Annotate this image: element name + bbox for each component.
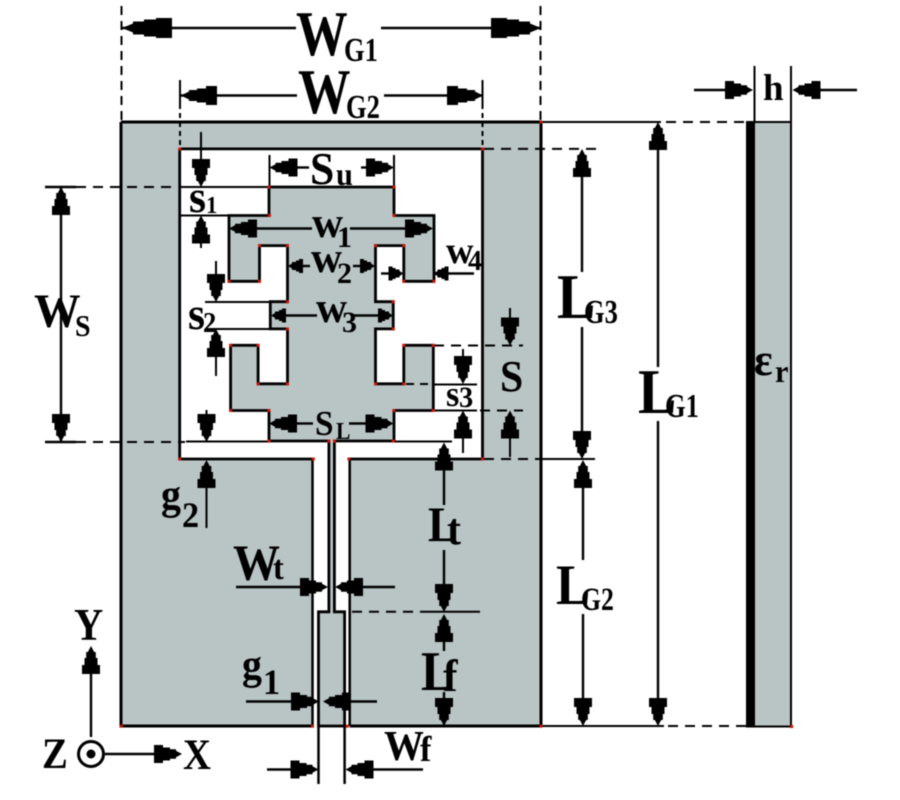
X axis arrow [105,753,154,755]
slot border [180,149,483,459]
svg-text:s: s [446,374,459,414]
svg-text:2: 2 [182,495,199,535]
svg-text:S: S [75,310,91,344]
svg-text:h: h [763,68,784,109]
dimension L_t (x=444) [428,443,462,613]
ground plane (front view) gray fill with slot and feed channel holes [121,122,541,726]
svg-text:s: s [189,171,206,222]
dimension L_G2 (x=583) [556,460,614,726]
s_2 extension lines [205,301,270,303]
svg-text:Z: Z [42,730,68,777]
ground plane outer border [121,122,541,726]
svg-text:f: f [420,729,433,769]
dimension W_G2 [180,56,483,149]
dimension s_1 (x=201) [189,132,217,248]
axis indicator [42,601,211,778]
dimension W_f [267,722,433,778]
dimension S_L [269,405,394,444]
dimension g_1 [242,641,377,710]
svg-text:G2: G2 [346,88,380,126]
permittivity label εr on substrate [754,334,789,389]
s3 dashed extension at y=384 [406,383,430,385]
svg-text:W: W [384,722,424,769]
dimension s3 (x=463) [446,349,473,453]
svg-text:X: X [183,731,211,778]
svg-text:t: t [273,549,284,587]
svg-text:S: S [310,143,334,194]
dashed extension slot bottom edge (y=459) [484,458,540,460]
dashed extension: ground bottom edge to side view [541,725,664,727]
svg-text:G1: G1 [665,387,699,425]
dimension s_2 (x=216) [188,261,225,376]
svg-text:G3: G3 [584,293,618,331]
svg-text:1: 1 [263,662,280,702]
dimension w_2 [288,235,375,290]
svg-text:3: 3 [459,381,473,414]
dimension W_t [233,534,395,596]
side view substrate strip [747,122,791,727]
dashed W_S extensions [76,186,178,188]
Z circle with dot [79,742,104,767]
dimension W_G1 [122,0,542,122]
svg-text:2: 2 [203,307,216,338]
dimension L_f (x=444) [421,614,459,726]
dimension w_3 [271,285,393,339]
dimension L_G1 (x=658) [638,122,699,726]
dimension S_u (top step width) [270,143,395,194]
solid extension lines inside slot (top y=187 and bottom y=442) [180,186,269,188]
patch (stepped monopole) with feed strip [229,187,434,726]
svg-text:u: u [336,156,353,192]
svg-text:ε: ε [754,334,773,385]
dimension w_1 [229,200,433,254]
dimension w_4 (right column width) [381,230,482,281]
side view ground layer (thick black) [746,121,755,728]
dashed extension slot top edge to L_G3 (y=149) [484,148,597,150]
svg-text:L: L [336,418,350,444]
dashed extension: ground top edge to side view [541,121,661,123]
svg-text:Y: Y [74,601,103,650]
svg-text:S: S [500,353,523,401]
dimension W_S (left) [34,187,91,442]
Y axis arrow [90,674,92,737]
svg-text:W: W [34,285,81,338]
svg-text:1: 1 [206,192,217,219]
transition extension line y=612 [352,611,420,613]
svg-text:f: f [443,650,459,701]
S dashed extensions [434,345,523,347]
dimension S (right, x=510) [500,308,523,457]
red corner dots [120,121,793,729]
dimension h (substrate thickness) [694,66,857,122]
svg-text:4: 4 [468,246,482,277]
svg-text:S: S [315,405,333,443]
feed strip side lines below ground edge (open-ended) [317,726,320,784]
feed channel walls [311,459,314,726]
svg-text:g: g [161,471,181,518]
dimension g_2 (x=206.5) [161,410,216,535]
svg-text:G2: G2 [581,582,614,618]
dimension L_G3 (x=582) [557,149,618,459]
svg-text:W: W [298,56,350,127]
svg-text:3: 3 [342,306,357,339]
svg-text:g: g [242,641,262,688]
svg-text:r: r [775,353,789,389]
svg-text:t: t [447,506,462,554]
